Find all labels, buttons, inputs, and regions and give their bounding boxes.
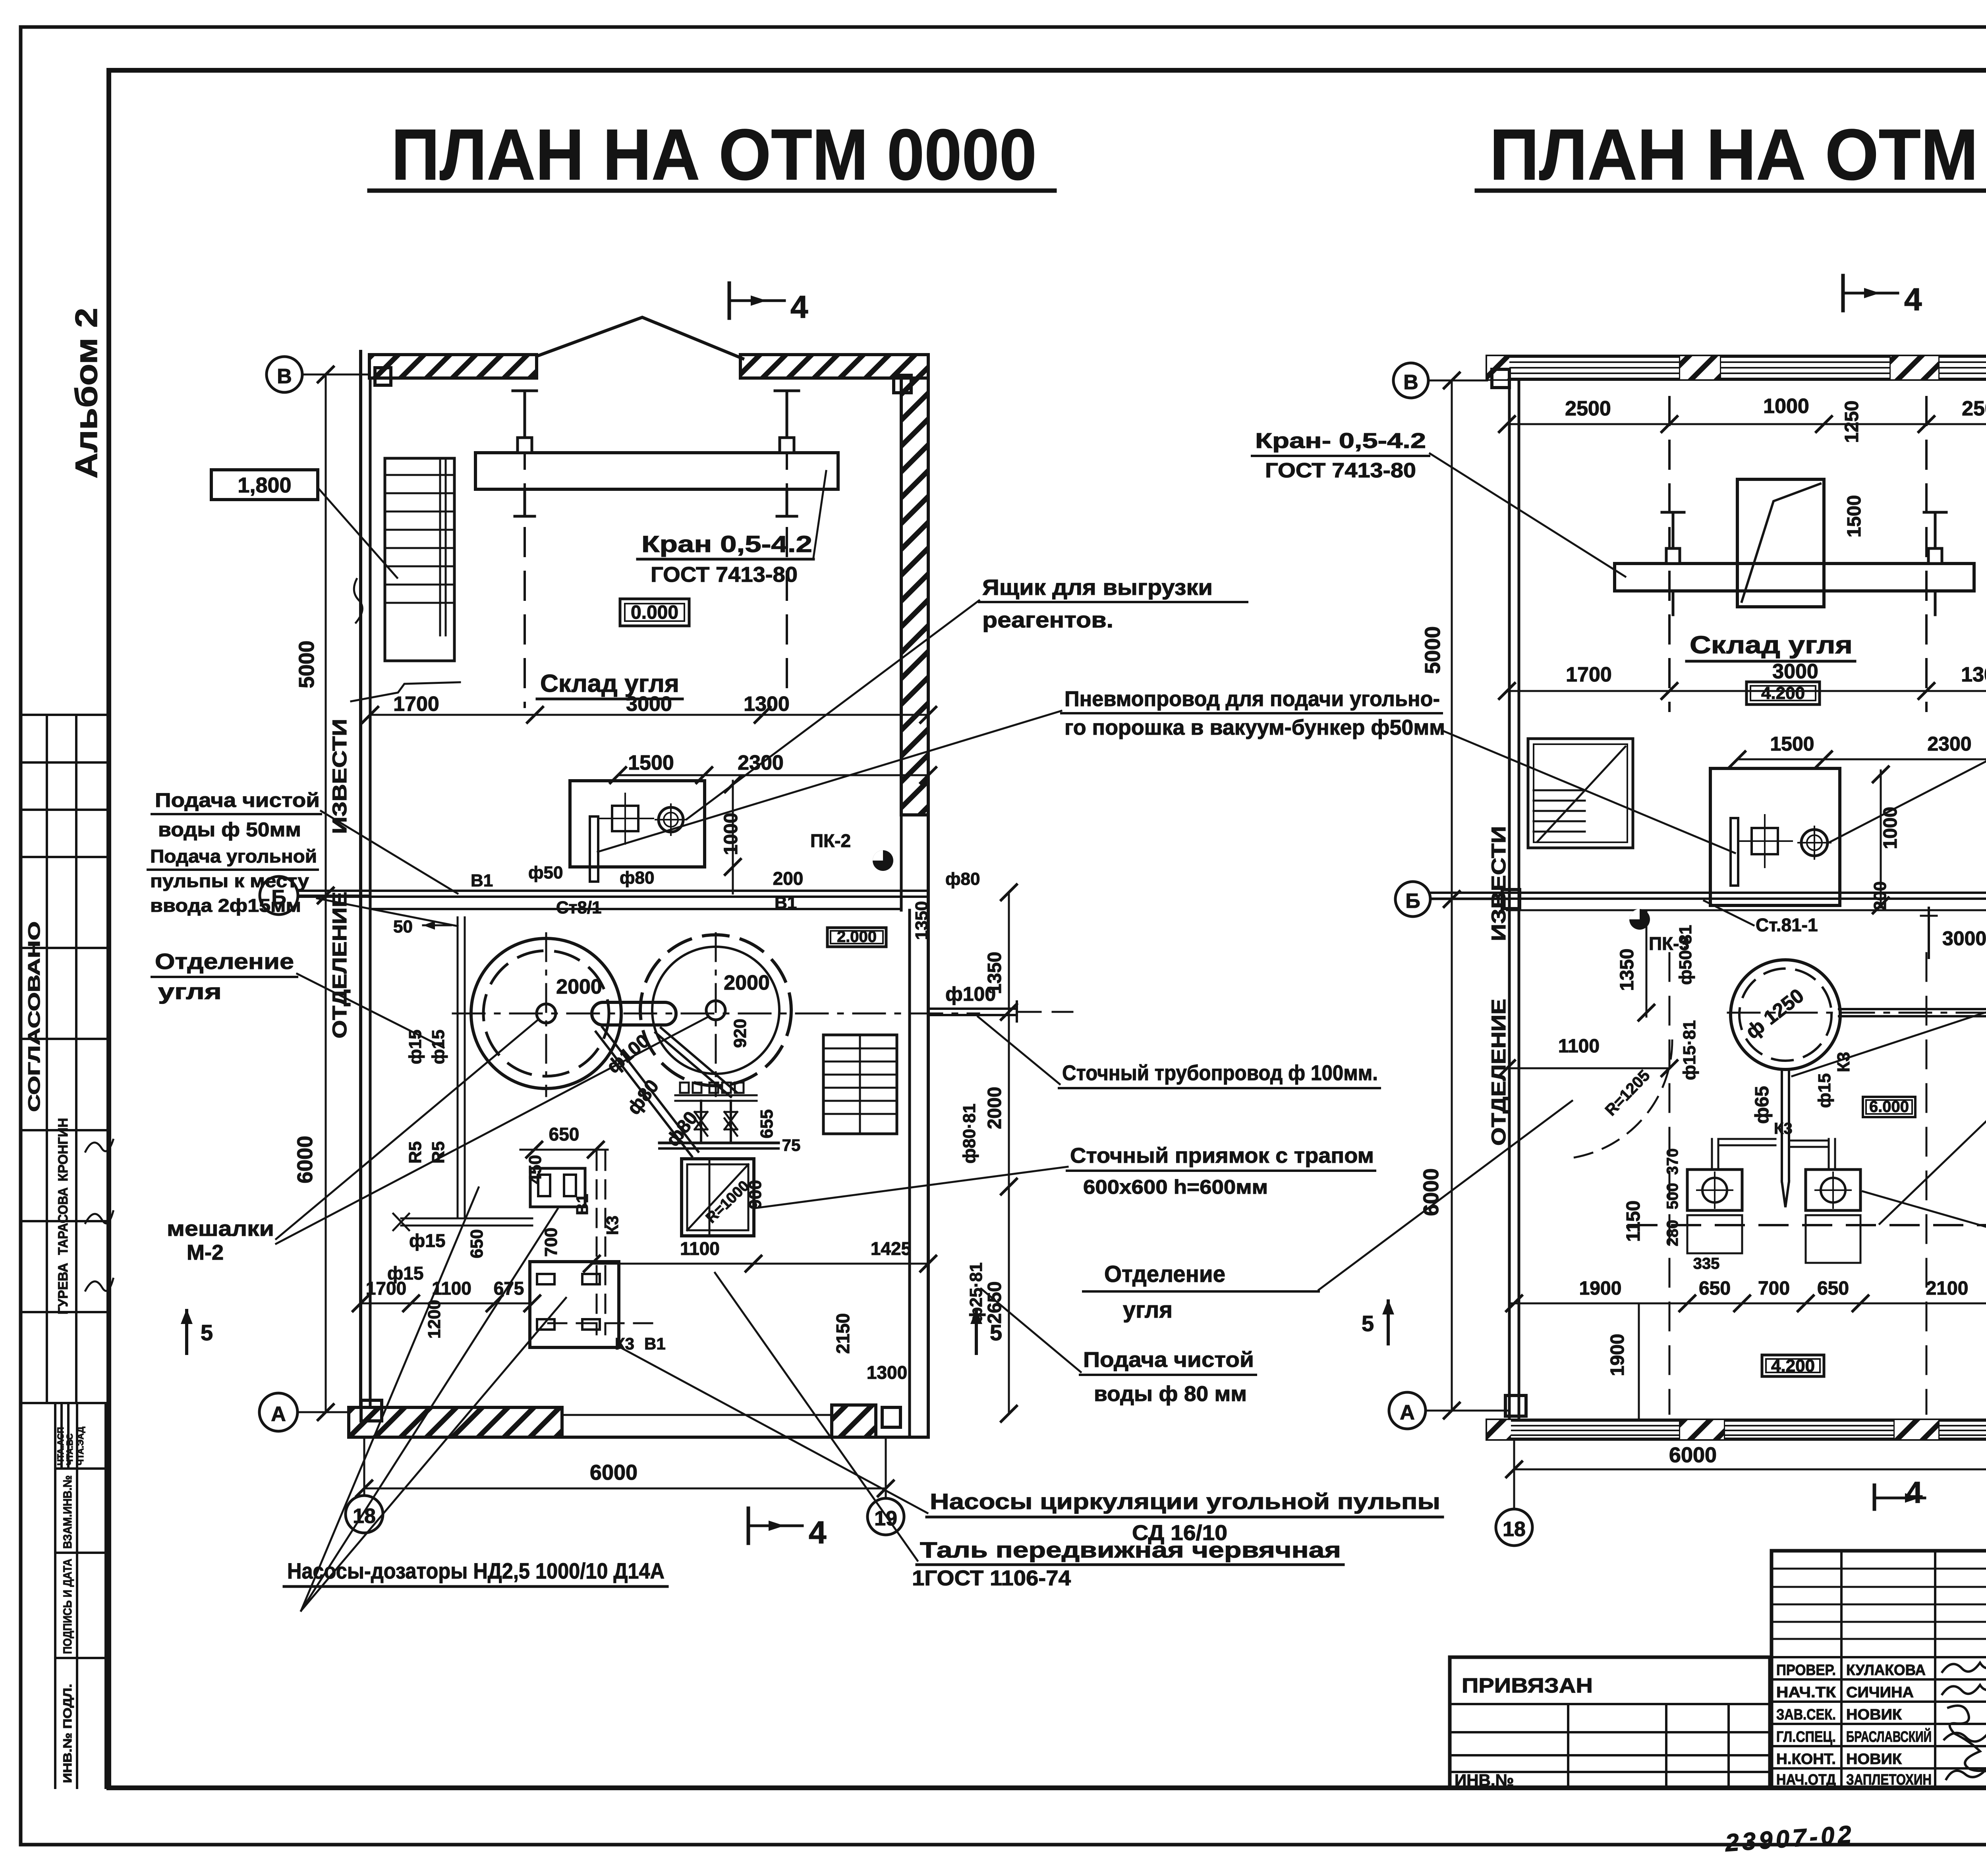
svg-text:НАЧ.ТК: НАЧ.ТК <box>1776 1684 1836 1701</box>
svg-text:280: 280 <box>1664 1220 1681 1247</box>
svg-text:ф65: ф65 <box>1752 1086 1773 1124</box>
capsule between mixers <box>592 1002 676 1025</box>
svg-text:R5: R5 <box>429 1141 448 1164</box>
svg-text:Ст8/1: Ст8/1 <box>556 898 602 917</box>
svg-text:Пневмопровод для подачи угольн: Пневмопровод для подачи угольно- <box>1064 687 1440 711</box>
svg-text:К3: К3 <box>1774 1120 1793 1137</box>
section mark 5 left <box>181 1309 213 1353</box>
svg-text:4.200: 4.200 <box>1771 1356 1815 1376</box>
svg-text:50: 50 <box>393 917 413 936</box>
circulation pump foundation <box>530 1262 619 1347</box>
svg-text:ф80: ф80 <box>620 868 654 888</box>
svg-text:1000: 1000 <box>1880 807 1901 849</box>
svg-text:НОВИК: НОВИК <box>1846 1706 1902 1723</box>
pneumo pipe bar <box>590 816 598 882</box>
svg-text:К3: К3 <box>603 1216 622 1235</box>
pipe line at axis B <box>299 890 928 892</box>
center callout: drain pit <box>755 1144 1375 1208</box>
svg-text:ПК-2: ПК-2 <box>810 830 851 851</box>
center callout: reagent box <box>687 575 1247 819</box>
svg-text:18: 18 <box>1503 1518 1526 1541</box>
callout dosing pumps <box>284 1187 667 1611</box>
svg-text:1500: 1500 <box>1770 733 1814 755</box>
mixer vertical axes <box>545 933 547 1096</box>
mixers center axis <box>453 1013 979 1015</box>
svg-text:ОТДЕЛЕНИЕ: ОТДЕЛЕНИЕ <box>1488 999 1510 1146</box>
svg-text:Таль передвижная червячная: Таль передвижная червячная <box>920 1537 1341 1562</box>
svg-text:3000: 3000 <box>626 693 672 716</box>
elevation box 2.000 <box>827 928 886 947</box>
section mark 4 bottom r <box>1874 1476 1925 1509</box>
pipe line at axis B r <box>1430 892 1986 894</box>
svg-text:ф15: ф15 <box>409 1230 445 1251</box>
rotated 1900 2400 <box>1607 1303 1639 1418</box>
svg-text:75: 75 <box>782 1136 801 1154</box>
svg-text:БРАСЛАВСКИЙ: БРАСЛАВСКИЙ <box>1846 1727 1932 1745</box>
svg-text:ГЛ.СПЕЦ.: ГЛ.СПЕЦ. <box>1776 1729 1836 1745</box>
top dim row r <box>1498 395 1986 443</box>
crane rails dashed r <box>1668 397 1671 711</box>
crane beam <box>475 453 838 489</box>
axis 18 circle <box>346 1440 383 1533</box>
svg-text:5000: 5000 <box>295 641 319 688</box>
svg-text:угля: угля <box>1123 1297 1173 1323</box>
callout hoist r <box>1880 1065 1986 1224</box>
rotated 1350 dims r <box>1617 910 1655 1021</box>
dim row r 1700 3000 1300 <box>1498 660 1986 700</box>
bottom wall hatched <box>349 1407 562 1437</box>
svg-text:650: 650 <box>549 1124 580 1145</box>
center callout: clean water f80 <box>981 1289 1256 1406</box>
signature table <box>1772 1551 1986 1788</box>
svg-text:200: 200 <box>773 868 804 889</box>
svg-text:Н.КОНТ.: Н.КОНТ. <box>1776 1751 1836 1768</box>
svg-text:1ГОСТ 1106-74: 1ГОСТ 1106-74 <box>912 1566 1071 1590</box>
svg-text:ГОСТ 7413-80: ГОСТ 7413-80 <box>651 563 798 587</box>
svg-text:700: 700 <box>541 1228 561 1256</box>
bottom dim row r <box>1505 1278 1986 1312</box>
callout coal section label <box>152 949 444 1048</box>
svg-text:450: 450 <box>525 1155 545 1184</box>
svg-text:Кран 0,5-4.2: Кран 0,5-4.2 <box>641 531 812 557</box>
crane rails dashed <box>524 397 526 707</box>
svg-text:1250: 1250 <box>1841 401 1862 443</box>
top wall band r <box>1487 356 1986 379</box>
svg-text:1700: 1700 <box>366 1278 406 1299</box>
svg-text:ПЛАН НА ОТМ 0000: ПЛАН НА ОТМ 0000 <box>391 114 1037 195</box>
dim row 1100 1425 <box>583 1238 937 1272</box>
drain pipe f100 stub <box>928 1002 1017 1021</box>
svg-text:ГУРЕВА: ГУРЕВА <box>56 1263 71 1314</box>
svg-text:2300: 2300 <box>1927 733 1971 755</box>
axis 19 circle <box>867 1440 904 1535</box>
stairs bottom-right <box>823 1035 897 1134</box>
mixer M-2 right <box>640 935 791 1086</box>
svg-text:ВЗАМ.ИНВ.№: ВЗАМ.ИНВ.№ <box>61 1475 74 1549</box>
right wall hatched <box>901 378 928 815</box>
svg-text:700: 700 <box>1758 1278 1790 1299</box>
bottom dim 6000 r <box>1505 1443 1986 1478</box>
signatures squiggles <box>1942 1663 1986 1672</box>
PK-3 hydrant <box>1629 909 1689 954</box>
crane label <box>638 471 826 587</box>
svg-text:мешалки: мешалки <box>167 1217 274 1241</box>
vacuum hopper circle f1250 <box>1731 960 1840 1069</box>
svg-text:ОТДЕЛЕНИЕ: ОТДЕЛЕНИЕ <box>328 892 351 1038</box>
crane hangers <box>513 391 799 516</box>
approval signatures <box>85 1140 113 1152</box>
svg-text:ввода 2ф15мм: ввода 2ф15мм <box>150 895 301 916</box>
svg-text:Сточный трубопровод ф 100мм.: Сточный трубопровод ф 100мм. <box>1062 1061 1378 1085</box>
section mark 4 top r <box>1843 276 1922 317</box>
section mark 5 right <box>970 1309 1002 1353</box>
svg-text:ф15: ф15 <box>1815 1073 1834 1108</box>
svg-text:угля: угля <box>158 979 222 1004</box>
svg-text:НОВИК: НОВИК <box>1846 1751 1902 1768</box>
left wall <box>359 351 362 1436</box>
room label sklad uglya <box>537 670 682 699</box>
svg-text:6000: 6000 <box>293 1136 317 1183</box>
svg-text:4.200: 4.200 <box>1761 683 1805 703</box>
axis A circle r <box>1389 1392 1509 1429</box>
svg-text:1900: 1900 <box>1579 1278 1622 1299</box>
svg-text:2500: 2500 <box>1565 397 1611 420</box>
svg-text:СИЧИНА: СИЧИНА <box>1846 1684 1914 1701</box>
svg-text:3000: 3000 <box>1772 660 1818 683</box>
svg-text:ИЗВЕСТИ: ИЗВЕСТИ <box>1488 826 1510 941</box>
svg-text:650: 650 <box>467 1229 487 1258</box>
svg-text:2100: 2100 <box>1926 1278 1969 1299</box>
svg-text:воды ф 80 мм: воды ф 80 мм <box>1094 1382 1247 1406</box>
svg-text:5: 5 <box>1362 1311 1374 1336</box>
bottom wall hatched piece right <box>832 1405 876 1437</box>
svg-text:Насосы-дозаторы НД2,5 1000/10: Насосы-дозаторы НД2,5 1000/10 Д14А <box>287 1558 665 1583</box>
center callout: drain pipe <box>978 1017 1380 1088</box>
elevation box 0.000 <box>620 599 689 626</box>
svg-text:1500: 1500 <box>628 751 674 774</box>
svg-text:200: 200 <box>1870 881 1890 910</box>
svg-text:6000: 6000 <box>1419 1168 1443 1216</box>
svg-text:4: 4 <box>1906 1476 1922 1509</box>
svg-text:Ящик для выгрузки: Ящик для выгрузки <box>982 575 1213 600</box>
svg-text:Ст.81-1: Ст.81-1 <box>1756 915 1818 935</box>
bottom dim 6000 <box>355 1461 894 1497</box>
svg-text:1350: 1350 <box>1617 949 1638 991</box>
crane beam r <box>1615 564 1974 591</box>
callout mixers M-2 <box>167 1017 707 1264</box>
svg-text:1425: 1425 <box>871 1238 911 1259</box>
svg-text:Насосы циркуляции угольной пул: Насосы циркуляции угольной пульпы <box>930 1489 1440 1514</box>
svg-text:ф80: ф80 <box>945 869 980 889</box>
center callout: circulation pumps <box>620 1347 1443 1545</box>
bottom margin table <box>55 1403 106 1788</box>
elevation box 4.200 top <box>1746 682 1820 704</box>
svg-text:4: 4 <box>809 1515 827 1550</box>
svg-text:реагентов.: реагентов. <box>982 607 1113 632</box>
svg-text:2000: 2000 <box>724 971 770 994</box>
dim 1000 vertical <box>732 781 734 894</box>
svg-text:Альбом 2: Альбом 2 <box>69 308 104 479</box>
top wall hatched segment 2 <box>740 355 928 378</box>
svg-text:Подача чистой: Подача чистой <box>155 789 320 811</box>
svg-text:ф80·81: ф80·81 <box>960 1104 979 1164</box>
svg-text:ПОДПИСЬ И ДАТА: ПОДПИСЬ И ДАТА <box>61 1559 74 1654</box>
svg-text:1100: 1100 <box>1558 1036 1600 1057</box>
dim row 1700 3000 1300 <box>361 693 937 724</box>
svg-text:1000: 1000 <box>1763 395 1809 418</box>
svg-text:ф15: ф15 <box>429 1030 448 1064</box>
axis A circle <box>259 1393 370 1431</box>
svg-text:ПРОВЕР.: ПРОВЕР. <box>1776 1662 1836 1679</box>
svg-text:655: 655 <box>757 1109 777 1138</box>
svg-text:А: А <box>1400 1401 1415 1424</box>
hatch opening square <box>1737 479 1824 607</box>
svg-text:650: 650 <box>1699 1278 1731 1299</box>
axis B circle r <box>1393 363 1487 398</box>
svg-text:900: 900 <box>746 1180 765 1209</box>
svg-text:2000: 2000 <box>984 1087 1005 1129</box>
room label sklad uglya r <box>1687 631 1855 661</box>
left wall r <box>1508 379 1511 1420</box>
suction pipe to right <box>1839 1001 1986 1025</box>
svg-text:500: 500 <box>1664 1183 1681 1210</box>
svg-text:R5: R5 <box>406 1141 425 1164</box>
svg-text:ЗАПЛЕТОХИН: ЗАПЛЕТОХИН <box>1846 1772 1932 1788</box>
bottom wall line <box>349 1436 928 1439</box>
svg-text:ф50·81: ф50·81 <box>1676 925 1695 985</box>
center callout: pneumo line <box>598 687 1735 853</box>
K3 riser dashed pipes <box>548 1152 659 1334</box>
callout clean water f50 <box>152 789 458 894</box>
svg-text:2650: 2650 <box>984 1282 1005 1324</box>
callout air suction <box>1792 954 1986 1076</box>
svg-text:го порошка в вакуум-бункер ф50: го порошка в вакуум-бункер ф50мм <box>1064 716 1445 739</box>
svg-text:В1: В1 <box>471 871 493 890</box>
dim 3000 with bracket <box>1921 908 1986 958</box>
label st 81-1 <box>1704 901 1818 935</box>
wall line below pipe <box>370 908 901 910</box>
svg-text:Подача угольной: Подача угольной <box>150 846 317 867</box>
svg-text:1700: 1700 <box>393 693 439 716</box>
svg-text:1350: 1350 <box>984 952 1005 994</box>
callout coal pulp supply <box>148 846 458 926</box>
right wall middle <box>900 815 903 910</box>
gable roof lines <box>537 317 743 359</box>
privyazan table <box>1450 1657 1770 1788</box>
section mark 4 bottom <box>748 1508 827 1550</box>
svg-text:4: 4 <box>1904 282 1922 317</box>
svg-text:2500: 2500 <box>1962 397 1986 420</box>
dim row 1500 2300 <box>609 751 937 784</box>
elevation box 6.000 <box>1863 1097 1915 1117</box>
svg-text:Отделение: Отделение <box>155 949 294 974</box>
svg-text:5000: 5000 <box>1421 626 1445 674</box>
svg-text:А: А <box>271 1403 286 1426</box>
svg-text:КУЛАКОВА: КУЛАКОВА <box>1846 1662 1926 1679</box>
svg-text:СОГЛАСОВАНО: СОГЛАСОВАНО <box>25 921 43 1112</box>
left margin approval table <box>21 715 109 1403</box>
axis 18 circle r <box>1496 1439 1532 1546</box>
svg-text:КРОНГИН: КРОНГИН <box>56 1118 71 1181</box>
svg-text:Подача чистой: Подача чистой <box>1083 1348 1254 1372</box>
callout reagent box r <box>1827 624 1986 843</box>
svg-text:В: В <box>277 365 292 388</box>
signature table texts <box>1776 1662 1932 1788</box>
svg-text:ТАРАСОВА: ТАРАСОВА <box>56 1187 71 1255</box>
svg-text:ф15·81: ф15·81 <box>1680 1020 1699 1080</box>
svg-text:ПЛАН НА ОТМ 4200: ПЛАН НА ОТМ 4200 <box>1489 114 1986 195</box>
box circle fitting <box>655 804 686 835</box>
vacuum pump 1 <box>1687 1139 1775 1253</box>
dosing pump foundation <box>530 1168 585 1207</box>
svg-text:1350: 1350 <box>912 901 931 940</box>
reagent unloading box <box>570 781 705 867</box>
right vertical dim chain <box>984 884 1018 1422</box>
svg-text:600х600 h=600мм: 600х600 h=600мм <box>1083 1176 1268 1198</box>
mixer M-2 left <box>471 938 621 1089</box>
svg-text:650: 650 <box>1817 1278 1849 1299</box>
callout 1,800 box <box>211 470 397 578</box>
svg-text:Отделение: Отделение <box>1104 1261 1225 1287</box>
svg-text:Б: Б <box>1405 890 1420 913</box>
svg-text:ИНВ.№ ПОДЛ.: ИНВ.№ ПОДЛ. <box>61 1684 74 1783</box>
stairs r <box>1528 739 1633 848</box>
svg-text:370: 370 <box>1664 1148 1681 1175</box>
f15 pipes <box>393 917 532 1230</box>
f65 down pipe <box>1782 1069 1789 1207</box>
svg-text:0.000: 0.000 <box>631 602 678 623</box>
diagonal pipes f80 <box>596 1027 736 1156</box>
svg-text:2150: 2150 <box>833 1313 853 1354</box>
callout crane r <box>1252 429 1625 577</box>
dim row r 1500 2300 <box>1729 733 1986 768</box>
bottom wall band r <box>1487 1420 1986 1439</box>
right wall lower <box>908 910 911 1437</box>
vacuum pump 2 <box>1789 1139 1860 1263</box>
top wall hatched segment 1 <box>369 355 537 378</box>
center callout: coal section <box>1083 1101 1572 1323</box>
corner columns <box>375 368 391 385</box>
vertical dim line left r <box>1419 372 1461 1419</box>
svg-text:1100: 1100 <box>432 1278 471 1299</box>
svg-text:ЧТА.ВС: ЧТА.ВС <box>65 1433 75 1465</box>
axis B circle <box>267 357 370 392</box>
svg-text:ИНВ.№: ИНВ.№ <box>1455 1771 1514 1789</box>
center callout: trolley hoist <box>715 1273 1343 1590</box>
dashed radius arc <box>1574 1040 1672 1158</box>
svg-text:335: 335 <box>1693 1255 1720 1272</box>
svg-text:1000: 1000 <box>721 813 742 855</box>
svg-text:ф15: ф15 <box>406 1030 425 1064</box>
svg-text:1,800: 1,800 <box>238 473 291 497</box>
svg-text:1300: 1300 <box>867 1362 907 1383</box>
axis B2 circle <box>260 876 370 915</box>
svg-text:1900: 1900 <box>1607 1334 1628 1376</box>
svg-text:В1: В1 <box>644 1334 666 1353</box>
svg-text:2000: 2000 <box>556 975 602 998</box>
svg-text:1200: 1200 <box>425 1300 444 1339</box>
svg-text:В: В <box>1403 371 1418 394</box>
callout vacuum pumps <box>1863 1191 1986 1322</box>
svg-text:1150: 1150 <box>1623 1200 1644 1242</box>
svg-text:3000: 3000 <box>1942 927 1986 950</box>
drain pit <box>682 1159 754 1236</box>
box square fitting <box>598 793 653 844</box>
svg-text:2.000: 2.000 <box>837 928 877 946</box>
wall break squiggle <box>354 579 362 623</box>
corner columns r top <box>1492 369 1509 388</box>
axis B2 circle r <box>1395 882 1509 917</box>
svg-text:1300: 1300 <box>744 693 790 716</box>
svg-text:ф50: ф50 <box>528 863 563 882</box>
svg-text:М-2: М-2 <box>187 1241 224 1264</box>
svg-text:1300: 1300 <box>1961 663 1986 686</box>
dim row 1700 1100 675 <box>352 1278 541 1312</box>
svg-text:1500: 1500 <box>1844 495 1865 538</box>
svg-text:пульпы к месту: пульпы к месту <box>150 870 309 891</box>
hoist travel dashed line <box>1629 1224 1986 1226</box>
dim 1100 r <box>1498 1036 1678 1077</box>
svg-text:ГОСТ 7413-80: ГОСТ 7413-80 <box>1265 459 1416 482</box>
svg-text:4: 4 <box>790 289 808 324</box>
svg-text:6.000: 6.000 <box>1869 1098 1909 1116</box>
svg-text:В1: В1 <box>775 893 797 913</box>
svg-text:5: 5 <box>201 1320 213 1345</box>
svg-text:6000: 6000 <box>590 1461 638 1484</box>
stairs top-left <box>385 458 454 661</box>
svg-text:5: 5 <box>990 1320 1002 1345</box>
reagent box r <box>1710 768 1840 905</box>
section mark 4 top <box>729 283 808 324</box>
svg-text:1100: 1100 <box>680 1238 720 1259</box>
svg-text:ЗАВ.СЕК.: ЗАВ.СЕК. <box>1776 1706 1836 1723</box>
svg-text:920: 920 <box>730 1019 750 1048</box>
svg-text:675: 675 <box>494 1278 524 1299</box>
svg-text:ЧТА.АСП: ЧТА.АСП <box>56 1427 66 1465</box>
svg-text:Кран- 0,5-4.2: Кран- 0,5-4.2 <box>1255 429 1426 453</box>
stairs break line <box>351 682 460 701</box>
svg-text:6000: 6000 <box>1669 1443 1717 1467</box>
vertical dim line left <box>293 366 334 1421</box>
svg-text:НАЧ.ОТД: НАЧ.ОТД <box>1776 1772 1836 1788</box>
svg-text:Склад угля: Склад угля <box>1690 631 1853 659</box>
svg-text:Сточный приямок с трапом: Сточный приямок с трапом <box>1070 1144 1374 1168</box>
PK-2 hydrant <box>810 830 893 871</box>
svg-text:ПРИВЯЗАН: ПРИВЯЗАН <box>1462 1674 1593 1697</box>
elevation box 4.200 bottom <box>1762 1355 1824 1376</box>
svg-text:воды ф 50мм: воды ф 50мм <box>158 818 301 841</box>
svg-text:1700: 1700 <box>1566 663 1612 686</box>
section mark 5 left r <box>1362 1299 1394 1344</box>
svg-text:ЧТА.ЭАД: ЧТА.ЭАД <box>75 1426 85 1465</box>
valve manifold <box>659 1083 779 1148</box>
